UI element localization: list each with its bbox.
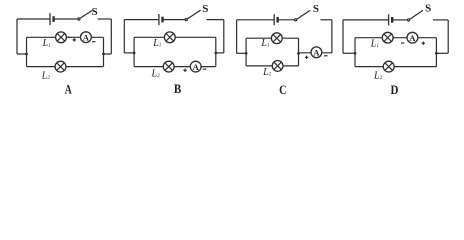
lamp L1 (A) <box>56 32 67 43</box>
wire: C parallel rect left side <box>245 38 247 66</box>
svg-text:B: B <box>174 82 182 96</box>
wire: A right jog <box>104 53 112 55</box>
svg-text:L2: L2 <box>41 71 51 82</box>
svg-text:L2: L2 <box>262 67 272 78</box>
wire: B battery to switch pivot <box>163 19 185 21</box>
lamp L1 (B) <box>164 32 175 43</box>
label - (D ammeter) <box>401 42 404 44</box>
node: B right junction dot <box>214 52 217 55</box>
wire: C left jog <box>237 52 247 54</box>
ammeter A (circuit C) <box>311 47 322 58</box>
node: A right junction dot <box>102 53 105 56</box>
lamp L2 (B) <box>163 61 174 72</box>
wire: D top-left to battery <box>343 19 388 21</box>
wire: C branch L2 horizontal <box>246 65 298 67</box>
battery B-C long plate (+) <box>273 14 275 25</box>
label - (B ammeter) <box>203 68 206 70</box>
svg-text:S: S <box>313 3 319 15</box>
battery B-D long plate (+) <box>388 14 390 25</box>
battery B-B long plate (+) <box>158 14 160 25</box>
label - (C ammeter) <box>324 55 327 57</box>
wire: B left vertical <box>123 20 125 53</box>
label + (C ammeter) <box>305 56 308 59</box>
node: small dot on wire right of L1 (A) <box>68 36 70 38</box>
wire: B right jog <box>216 52 224 54</box>
ammeter A (circuit B) <box>190 61 201 72</box>
wire: C right vertical down to ammeter line <box>331 20 333 53</box>
wire: C battery to switch pivot <box>278 19 295 21</box>
label - (A ammeter) <box>92 41 95 43</box>
svg-text:C: C <box>279 83 286 97</box>
svg-text:D: D <box>390 83 398 97</box>
wire: D after switch to top-right corner <box>433 19 448 21</box>
label + (D ammeter) <box>422 42 425 45</box>
wire: A left vertical <box>16 19 18 54</box>
node: D right junction dot <box>435 52 438 55</box>
node: C right junction dot <box>297 52 300 55</box>
lamp L1 (C) <box>271 33 282 44</box>
svg-text:A: A <box>409 33 416 43</box>
wire: C top-left to battery <box>237 19 274 21</box>
node: B left junction dot <box>133 52 136 55</box>
wire: B after switch to top-right corner <box>207 19 224 21</box>
switch S blade (D, open) <box>410 10 423 19</box>
switch S pivot (A) <box>78 18 80 20</box>
wire: B right vertical <box>223 20 225 53</box>
wire: B top-left to battery <box>124 19 158 21</box>
svg-text:S: S <box>92 6 98 18</box>
ammeter A (circuit D) <box>407 32 418 43</box>
wire: A top-left from corner to battery <box>17 18 49 20</box>
wire: A inner rect left side <box>26 37 28 66</box>
label + (B ammeter) <box>183 69 186 72</box>
wire: D inner rect left side <box>354 38 356 67</box>
wire: B left jog <box>124 52 134 54</box>
switch S blade (A, open) <box>80 11 92 19</box>
node: A left junction dot <box>25 53 28 56</box>
svg-text:L1: L1 <box>152 38 162 49</box>
svg-text:A: A <box>83 33 90 43</box>
svg-text:L1: L1 <box>42 38 52 49</box>
wire: D battery to switch pivot <box>392 19 407 21</box>
wire: D right vertical <box>447 20 449 53</box>
battery B-B short thick plate (-) <box>161 17 163 23</box>
switch S pivot (B) <box>185 19 187 21</box>
svg-text:L2: L2 <box>373 71 383 82</box>
svg-text:L1: L1 <box>370 38 380 49</box>
wire: D branch2 (L2) horizontal <box>355 66 436 68</box>
switch S blade (C, open) <box>297 10 310 19</box>
svg-text:S: S <box>202 3 208 15</box>
wire: A after switch to top-right corner <box>98 18 112 20</box>
wire: A right vertical <box>110 19 112 54</box>
wire: A battery to switch pivot <box>54 18 78 20</box>
wire: C parallel rect right side <box>298 38 300 66</box>
lamp L2 (C) <box>272 61 283 72</box>
wire: B branch1 (L1) horizontal <box>134 36 216 38</box>
wire: C after switch to top-right corner <box>321 19 332 21</box>
svg-text:A: A <box>313 48 320 58</box>
battery B-A short thick plate (-) <box>52 16 54 22</box>
switch S pivot (D) <box>408 19 410 21</box>
wire: C branch L1 horizontal <box>246 37 298 39</box>
switch S blade (B, open) <box>187 10 200 19</box>
wire: A branch1 (L1+ammeter) horizontal <box>27 36 104 38</box>
wire: B branch2 (L2+ammeter) horizontal <box>134 66 216 68</box>
wire: C ammeter line to right vertical <box>299 52 332 54</box>
label + (A ammeter) <box>73 38 76 41</box>
wire: D right jog <box>436 52 448 54</box>
wire: D left jog <box>343 52 355 54</box>
lamp L2 (A) <box>55 61 66 72</box>
svg-text:S: S <box>425 3 431 15</box>
wire: D branch1 (L1+ammeter) horizontal <box>355 37 436 39</box>
lamp L1 (D) <box>382 32 393 43</box>
wire: C left vertical <box>236 20 238 54</box>
ammeter A (circuit A) <box>81 32 92 43</box>
node: C left junction dot <box>245 52 248 55</box>
svg-text:A: A <box>193 62 200 72</box>
battery B-D short thick plate (-) <box>391 17 393 23</box>
wire: D left vertical <box>342 20 344 53</box>
battery B-A long plate (+) <box>49 13 51 25</box>
wire: B inner rect left side <box>133 37 135 66</box>
wire: D inner rect right side <box>435 38 437 67</box>
svg-text:L1: L1 <box>260 38 270 49</box>
battery B-C short thick plate (-) <box>276 17 278 23</box>
wire: A left jog <box>17 53 27 55</box>
wire: B inner rect right side <box>215 37 217 66</box>
switch S pivot (C) <box>295 19 297 21</box>
lamp L2 (D) <box>383 61 394 72</box>
node: D left junction dot <box>354 52 357 55</box>
wire: A inner rect right side <box>103 37 105 66</box>
svg-text:A: A <box>65 82 73 96</box>
svg-text:L2: L2 <box>151 68 161 79</box>
wire: A branch2 (L2) horizontal <box>27 66 104 68</box>
